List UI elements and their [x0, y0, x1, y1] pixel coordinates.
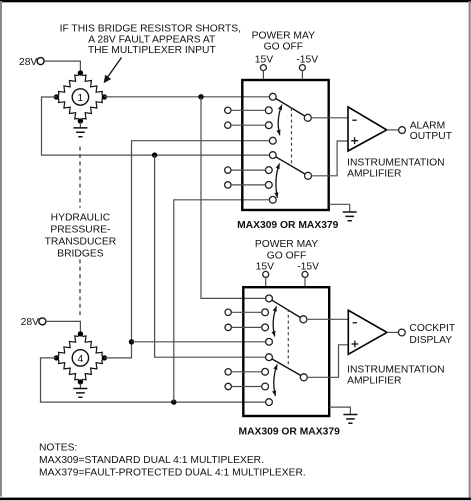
wire: U1 ground pin	[329, 204, 350, 212]
wire: 28V terminal to bridge 4 top	[46, 321, 81, 331]
U1 output contact 1	[304, 114, 311, 121]
supply terminal -15V (lower mux)	[297, 261, 319, 286]
fault pointer arrow	[104, 58, 122, 84]
bridge 4 top node	[78, 331, 83, 336]
U2 switch arm 2	[272, 359, 301, 376]
label: ALARM OUTPUT	[410, 120, 453, 142]
wire: unused terminal 3 into U2	[231, 326, 261, 328]
wire: junction up to mux1 input 8	[174, 200, 270, 402]
svg-text:POWER MAY: POWER MAY	[252, 30, 315, 41]
bridge 1 top node	[78, 70, 83, 75]
U2 switch arm 1	[272, 300, 301, 317]
junction node: bridge1+ to both muxes	[198, 94, 203, 99]
U2 unused input terminal 7	[225, 383, 231, 389]
svg-text:GO OFF: GO OFF	[264, 41, 303, 52]
supply terminal 15V (upper mux)	[255, 54, 273, 79]
U2 input contact 3	[262, 324, 269, 331]
wire: bridge 4 right node up to mux1 row 4	[104, 141, 269, 358]
U1 switch travel arrow 2	[276, 164, 280, 198]
terminal: alarm output	[399, 127, 406, 134]
svg-text:MAX379=FAULT-PROTECTED DUAL 4:: MAX379=FAULT-PROTECTED DUAL 4:1 MULTIPLE…	[39, 467, 306, 478]
wire: unused terminal 2 into U2	[231, 311, 261, 313]
wire: junction down to mux2 input 5	[155, 155, 266, 357]
U2 input contact 2	[262, 309, 269, 316]
terminal: cockpit display	[398, 329, 405, 336]
bridge 4 resistor (top-left arm)	[56, 334, 80, 358]
wire: 28V terminal to bridge 1 top	[44, 61, 80, 71]
svg-text:MAX309=STANDARD DUAL 4:1 MULTI: MAX309=STANDARD DUAL 4:1 MULTIPLEXER.	[39, 455, 264, 466]
U1 unused input terminal 2	[225, 107, 231, 113]
U2 input contact 5	[266, 354, 273, 361]
svg-text:GO OFF: GO OFF	[267, 251, 306, 262]
supply terminal -15V (upper mux)	[296, 54, 318, 79]
ground (U2)	[343, 415, 357, 424]
svg-text:HYDRAULIC: HYDRAULIC	[51, 212, 111, 223]
28V supply terminal (bridge 4)	[21, 317, 46, 328]
svg-text:15V: 15V	[255, 54, 273, 65]
U2 unused input terminal 3	[225, 324, 231, 330]
U2 switch gang dashed link	[287, 309, 289, 365]
U1 input contact 5	[269, 152, 276, 159]
U1 unused input terminal 6	[225, 167, 231, 173]
svg-text:PRESSURE-: PRESSURE-	[50, 225, 110, 236]
svg-text:AMPLIFIER: AMPLIFIER	[347, 376, 401, 387]
bridge 4 right node	[102, 355, 107, 360]
wire: U2 ground pin	[329, 407, 350, 414]
wire: junction down to mux2 input 1	[201, 97, 266, 299]
svg-text:INSTRUMENTATION: INSTRUMENTATION	[347, 158, 444, 169]
svg-text:MAX309 OR MAX379: MAX309 OR MAX379	[239, 426, 341, 437]
bridge 1 left node	[54, 94, 59, 99]
svg-text:MAX309 OR MAX379: MAX309 OR MAX379	[237, 220, 339, 231]
junction node: bridge4- branch up to mux1 row 8	[171, 399, 176, 404]
svg-text:OUTPUT: OUTPUT	[410, 131, 453, 142]
svg-text:15V: 15V	[256, 261, 274, 272]
bridge 4 left node	[54, 355, 59, 360]
svg-text:TRANSDUCER: TRANSDUCER	[45, 237, 117, 248]
wire: unused terminal 3 into U1	[231, 124, 265, 126]
U1 switch gang dashed link	[291, 108, 293, 164]
wire: unused terminal 7 into U1	[231, 184, 265, 186]
U2 unused input terminal 6	[225, 369, 231, 375]
wire: bridge 1 left node down and right to mux row 5	[42, 97, 270, 155]
multiplexer U2 MAX309 OR MAX379 box	[243, 287, 329, 416]
note text: power may go off (lower)	[255, 239, 318, 262]
svg-text:COCKPIT: COCKPIT	[409, 323, 455, 334]
U2 input contact 1	[266, 295, 273, 302]
wire: A2 output	[387, 331, 398, 333]
U1 input contact 3	[265, 122, 272, 129]
wire: junction to mux2 input 4	[132, 341, 266, 343]
label: INSTRUMENTATION AMPLIFIER (A2)	[347, 364, 444, 386]
svg-text:BRIDGES: BRIDGES	[57, 249, 103, 260]
junction node: bridge4+ branch to mux2 row 4	[129, 339, 134, 344]
U2 output contact 2	[300, 374, 307, 381]
svg-text:ALARM: ALARM	[410, 120, 445, 131]
bridge 4 label circle	[72, 350, 88, 366]
bridge 1 resistor (top-right arm)	[80, 73, 104, 97]
wire: unused terminal 6 into U2	[231, 371, 261, 373]
svg-text:THE MULTIPLEXER INPUT: THE MULTIPLEXER INPUT	[88, 45, 217, 56]
note text: power may go off (upper)	[252, 30, 315, 52]
svg-text:NOTES:: NOTES:	[39, 442, 77, 453]
U2 input contact 8	[266, 399, 273, 406]
svg-text:-15V: -15V	[296, 54, 318, 65]
U2 unused input terminal 2	[225, 309, 231, 315]
op-amp A1 instrumentation amplifier	[348, 107, 387, 151]
U1 input contact 6	[265, 167, 272, 174]
U2 input contact 7	[262, 383, 269, 390]
wire: unused terminal 6 into U1	[231, 169, 265, 171]
U1 switch arm 2	[276, 157, 305, 174]
bridge 1 resistor (top-left arm)	[56, 73, 80, 97]
U1 input contact 2	[265, 107, 272, 114]
bridge 4 resistor (bottom-right arm)	[80, 358, 104, 382]
ground (bridge 1)	[73, 122, 87, 137]
28V supply terminal (bridge 1)	[19, 57, 44, 68]
bridge 1 bottom node	[78, 118, 83, 123]
U2 input contact 4	[266, 338, 273, 345]
svg-text:28V: 28V	[21, 317, 39, 328]
svg-text:-15V: -15V	[297, 261, 319, 272]
svg-text:1: 1	[78, 93, 84, 104]
U2 input contact 6	[262, 368, 269, 375]
bridge 4 bottom node	[78, 379, 83, 384]
ground (U1)	[343, 212, 357, 221]
wire: unused terminal 7 into U2	[231, 386, 261, 388]
junction node: bridge1- to both muxes	[152, 152, 157, 157]
svg-text:4: 4	[78, 354, 84, 365]
label: INSTRUMENTATION AMPLIFIER (A1)	[347, 158, 444, 180]
wire: U1 output 2 to amplifier A1 non-inverting input	[312, 141, 349, 176]
dashed link between bridges (lower segment)	[79, 259, 81, 315]
U1 switch arm 1	[276, 99, 305, 117]
svg-text:INSTRUMENTATION: INSTRUMENTATION	[347, 364, 444, 375]
bridge 1 resistor (bottom-left arm)	[56, 97, 80, 121]
svg-text:IF THIS BRIDGE RESISTOR SHORTS: IF THIS BRIDGE RESISTOR SHORTS,	[60, 23, 241, 34]
note text: hydraulic pressure-transducer bridges	[45, 212, 117, 259]
ground (bridge 4)	[73, 383, 87, 397]
dashed link between bridges (upper segment)	[79, 147, 81, 208]
svg-text:AMPLIFIER: AMPLIFIER	[347, 169, 401, 180]
bridge 4 resistor (top-right arm)	[80, 334, 104, 358]
U1 input contact 8	[269, 196, 276, 203]
bridge 1 resistor (bottom-right arm)	[80, 97, 104, 121]
bridge 1 label circle	[72, 89, 88, 105]
svg-text:28V: 28V	[19, 57, 37, 68]
U2 switch travel arrow 1	[273, 306, 276, 336]
U1 input contact 7	[265, 182, 272, 189]
svg-text:DISPLAY: DISPLAY	[409, 335, 452, 346]
bridge 1 right node	[102, 94, 107, 99]
supply terminal 15V (lower mux)	[256, 261, 274, 286]
wire: unused terminal 2 into U1	[231, 109, 265, 111]
U1 unused input terminal 3	[225, 122, 231, 128]
U1 output contact 2	[305, 172, 312, 179]
note text: NOTES block	[39, 442, 306, 478]
wire: U2 output 2 to amplifier A2 non-inverting input	[307, 345, 348, 378]
wire: U1 output 1 to amplifier A1 inverting input	[311, 117, 348, 119]
svg-text:POWER MAY: POWER MAY	[255, 239, 318, 250]
op-amp A2 instrumentation amplifier	[348, 310, 387, 354]
wire: A1 output	[387, 129, 399, 131]
wire: bridge 4 left node down and right to mux2 row 8	[41, 358, 266, 402]
U2 output contact 1	[300, 316, 307, 323]
bridge 4 resistor (bottom-left arm)	[56, 358, 80, 382]
U1 input contact 4	[269, 137, 276, 144]
U2 switch travel arrow 2	[274, 364, 277, 396]
U1 unused input terminal 7	[225, 182, 231, 188]
U1 switch travel arrow 1	[278, 105, 282, 136]
U1 input contact 1	[269, 93, 276, 100]
note text: fault annotation	[60, 23, 241, 56]
multiplexer U1 MAX309 OR MAX379 box	[242, 80, 328, 210]
wire: bridge 1 right node to mux1 input 1	[104, 96, 269, 98]
svg-text:A 28V FAULT APPEARS AT: A 28V FAULT APPEARS AT	[88, 34, 216, 45]
label: COCKPIT DISPLAY	[409, 323, 455, 346]
wire: U2 output 1 to amplifier A2 inverting input	[307, 318, 348, 320]
